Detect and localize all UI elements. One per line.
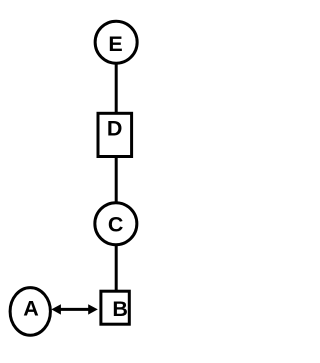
svg-text:C: C [108,212,124,236]
svg-text:A: A [23,297,39,321]
svg-text:E: E [108,32,122,56]
svg-text:D: D [107,116,123,140]
svg-text:B: B [112,297,128,321]
